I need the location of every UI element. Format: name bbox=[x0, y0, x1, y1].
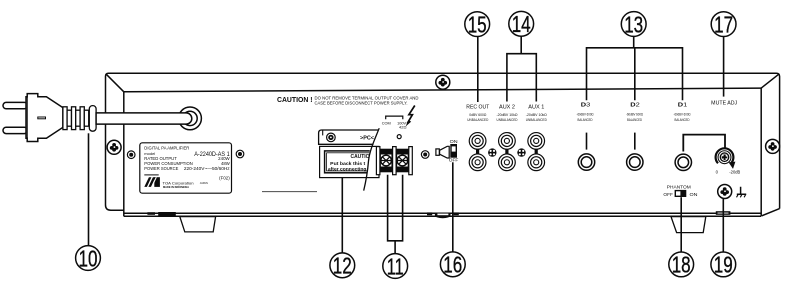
COM 100V bracket bbox=[386, 116, 403, 119]
svg-text:11: 11 bbox=[387, 253, 404, 279]
callout 13 leader bracket bbox=[587, 36, 683, 100]
svg-text:15: 15 bbox=[468, 11, 487, 37]
cover plate seam tick bbox=[322, 130, 324, 135]
svg-text:BALANCED: BALANCED bbox=[675, 118, 690, 122]
chassis bottom-right bevel bbox=[762, 209, 780, 216]
lightning bolt hazard symbol bbox=[407, 106, 415, 124]
chassis front face top edge bbox=[124, 88, 761, 92]
svg-text:ON: ON bbox=[450, 139, 458, 144]
vent slot line bbox=[262, 191, 317, 193]
chassis front face right edge bbox=[760, 88, 762, 216]
small hole above terminal block bbox=[397, 135, 401, 139]
peeled cover curve bbox=[364, 128, 380, 190]
svg-text:17: 17 bbox=[714, 11, 733, 37]
screw bottom right near ground bbox=[718, 185, 732, 199]
center rail bbox=[393, 147, 397, 175]
caution sticker outer border bbox=[325, 151, 375, 173]
svg-text:PHANTOM: PHANTOM bbox=[667, 184, 691, 190]
svg-text:13: 13 bbox=[624, 11, 643, 37]
callout 12 leader line bbox=[341, 178, 343, 253]
ring screw left of label bbox=[127, 151, 135, 159]
svg-text:-60dBV 600Ω: -60dBV 600Ω bbox=[577, 112, 594, 116]
right rail bbox=[409, 147, 413, 175]
svg-text:REC OUT: REC OUT bbox=[466, 104, 490, 110]
svg-text:-60dBV 600Ω: -60dBV 600Ω bbox=[674, 112, 691, 116]
TOA logo mark bbox=[144, 177, 151, 187]
cell 2 body bbox=[396, 149, 409, 173]
svg-text:COM: COM bbox=[382, 120, 391, 125]
svg-text:10: 10 bbox=[79, 245, 98, 271]
cord grommet bbox=[179, 107, 202, 130]
terminal cover plate bbox=[319, 130, 379, 144]
D1 phone jack bbox=[675, 154, 691, 170]
callout 15 bbox=[465, 11, 490, 37]
left rail bbox=[376, 147, 380, 175]
power plug pin lower bbox=[3, 127, 28, 133]
svg-text:18: 18 bbox=[672, 252, 691, 278]
caution label holder bbox=[320, 146, 379, 177]
callout 11 bbox=[383, 253, 408, 279]
caution sticker inner border bbox=[327, 153, 373, 171]
callout 13 bbox=[621, 11, 646, 37]
peeled cover white area bbox=[367, 148, 378, 177]
D3 phone jack bbox=[578, 154, 594, 170]
svg-text:POWER SOURCE: POWER SOURCE bbox=[144, 166, 178, 171]
right foot bbox=[671, 217, 706, 233]
ring screw right of label bbox=[236, 150, 244, 158]
power plug body face line bbox=[26, 97, 28, 138]
cover plate screw bbox=[327, 133, 336, 142]
chassis rear panel outline bbox=[106, 73, 780, 216]
screw right side face bbox=[766, 139, 780, 153]
svg-text:-60dBV 600Ω: -60dBV 600Ω bbox=[626, 112, 643, 116]
callout 18 leader line bbox=[680, 197, 682, 252]
svg-text:16: 16 bbox=[443, 252, 462, 278]
callout 19 bbox=[711, 252, 736, 278]
svg-text:UNBALANCED: UNBALANCED bbox=[526, 118, 547, 122]
svg-text:CAUTION !: CAUTION ! bbox=[277, 97, 313, 104]
RCA pair AUX 1 bbox=[535, 148, 538, 155]
svg-text:-20dBV 10kΩ: -20dBV 10kΩ bbox=[526, 113, 547, 117]
chassis bottom edge line 2 bbox=[124, 215, 761, 217]
svg-text:0: 0 bbox=[716, 169, 719, 174]
svg-text:-20dBV 10kΩ: -20dBV 10kΩ bbox=[497, 113, 518, 117]
callout 10 leader line bbox=[88, 133, 90, 245]
terminal screw 1 bbox=[381, 155, 392, 166]
svg-text:BALANCED: BALANCED bbox=[627, 118, 642, 122]
chassis top-right bevel bbox=[761, 74, 779, 88]
power plug body bbox=[26, 94, 63, 142]
svg-text:AUX 2: AUX 2 bbox=[499, 104, 515, 110]
callout 16 leader line bbox=[452, 162, 454, 252]
chassis ground symbol bbox=[737, 187, 746, 195]
svg-text:19: 19 bbox=[714, 252, 733, 278]
svg-text:12: 12 bbox=[333, 253, 352, 279]
svg-text:AUX 1: AUX 1 bbox=[528, 104, 544, 110]
svg-text:-20dB: -20dB bbox=[729, 169, 740, 174]
right rubber bump bbox=[716, 211, 731, 215]
RCA pair REC OUT bbox=[476, 148, 479, 155]
svg-text:D2: D2 bbox=[630, 102, 640, 108]
callout 10 bbox=[76, 245, 101, 271]
callout 17 leader line bbox=[723, 37, 725, 97]
svg-text:BALANCED: BALANCED bbox=[578, 118, 593, 122]
svg-text:Put back this t: Put back this t bbox=[330, 161, 366, 166]
left foot bbox=[180, 217, 216, 232]
rating label plate bbox=[140, 143, 232, 193]
svg-text:D1: D1 bbox=[678, 102, 688, 108]
D3 guide tick bbox=[586, 133, 588, 150]
phantom slide switch bbox=[675, 190, 687, 197]
mute adj pot knob bbox=[718, 150, 732, 164]
callout 12 bbox=[330, 253, 355, 279]
RCA pair AUX 2 bbox=[505, 148, 508, 155]
svg-text:ON: ON bbox=[690, 192, 698, 197]
svg-text:MADE IN INDONESIA: MADE IN INDONESIA bbox=[163, 185, 189, 189]
svg-text:CASE BEFORE DISCONNECT POWER S: CASE BEFORE DISCONNECT POWER SUPPLY. bbox=[315, 101, 408, 106]
svg-text:0dBV 600Ω: 0dBV 600Ω bbox=[469, 113, 486, 117]
chassis left side bottom corner bbox=[106, 205, 124, 210]
mute adj pot arc with arrow bbox=[716, 148, 734, 163]
callout 15 leader line bbox=[477, 37, 479, 102]
cell 1 body bbox=[380, 149, 393, 173]
chassis front face left edge bbox=[123, 92, 125, 217]
D2 phone jack bbox=[627, 154, 643, 170]
callout 17 bbox=[711, 11, 736, 37]
svg-text:(F02): (F02) bbox=[219, 175, 230, 180]
svg-text:OFF: OFF bbox=[663, 192, 673, 197]
small screw between AUX 2 and AUX 1 bbox=[517, 148, 525, 156]
terminal screw 2 bbox=[397, 155, 408, 166]
label short line above logo bbox=[144, 174, 158, 176]
svg-text:UNBALANCED: UNBALANCED bbox=[467, 118, 488, 122]
svg-text:JAPAN: JAPAN bbox=[200, 182, 208, 185]
speaker terminal wires to callout 11 bbox=[388, 175, 403, 254]
callout 16 bbox=[440, 252, 465, 278]
power plug body slot bbox=[38, 117, 46, 119]
svg-text:UNBALANCED: UNBALANCED bbox=[497, 118, 518, 122]
speaker horn icon bbox=[436, 149, 439, 155]
power plug pin upper bbox=[3, 102, 28, 108]
ring screw right of terminal block bbox=[421, 151, 429, 159]
bracket from D1 jack to mute pot bbox=[683, 135, 725, 152]
svg-text:220-240V~—50/60Hz: 220-240V~—50/60Hz bbox=[184, 166, 230, 171]
chassis outer top edge bbox=[106, 73, 780, 208]
screw left of label bbox=[107, 140, 121, 154]
svg-text:>PC<: >PC< bbox=[360, 135, 374, 141]
svg-text:after connecting: after connecting bbox=[328, 167, 367, 172]
small screw between REC OUT and AUX 2 bbox=[488, 148, 496, 156]
screw top strip bbox=[436, 75, 450, 89]
svg-text:MUTE ADJ: MUTE ADJ bbox=[711, 100, 737, 106]
svg-text:14: 14 bbox=[512, 11, 531, 37]
callout 14 bbox=[509, 11, 534, 37]
svg-text:CAUTIO: CAUTIO bbox=[351, 154, 370, 160]
speaker on/off slide switch bbox=[450, 144, 457, 158]
svg-text:D3: D3 bbox=[581, 102, 591, 108]
D2 guide tick bbox=[634, 133, 636, 150]
callout 14 leader bracket bbox=[507, 36, 536, 101]
svg-text:OFF: OFF bbox=[449, 157, 459, 162]
chassis bottom edge line 1 bbox=[124, 212, 761, 214]
callout 19 leader line bbox=[722, 199, 724, 252]
svg-text:42Ω: 42Ω bbox=[399, 124, 407, 129]
center rubber bump bbox=[427, 212, 432, 215]
power cord strain relief ribs bbox=[63, 106, 96, 132]
power cord over grommet bbox=[96, 113, 192, 124]
left rubber bump pair bbox=[147, 212, 155, 215]
speaker terminal block bbox=[376, 147, 412, 175]
callout 18 bbox=[669, 252, 694, 278]
chassis top-left bevel bbox=[106, 74, 124, 92]
